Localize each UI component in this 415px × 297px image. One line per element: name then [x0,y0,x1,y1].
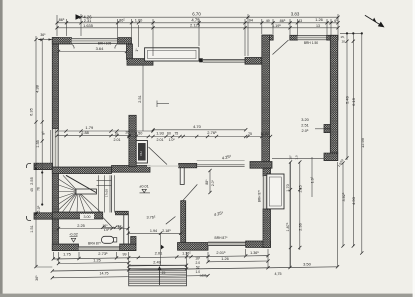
svg-text:1.635: 1.635 [83,23,93,28]
svg-text:2.25: 2.25 [77,223,85,228]
svg-text:1.70: 1.70 [286,184,290,191]
svg-text:99: 99 [123,252,127,256]
svg-text:1.0⁵: 1.0⁵ [169,138,176,142]
svg-text:14,75: 14,75 [100,272,109,276]
svg-text:1.94: 1.94 [150,229,157,233]
svg-text:75: 75 [174,132,178,136]
svg-text:43: 43 [298,19,302,23]
svg-text:75: 75 [248,132,252,136]
svg-text:2.73⁵: 2.73⁵ [98,251,108,256]
svg-text:4.50: 4.50 [351,196,356,205]
svg-text:2.01: 2.01 [157,138,164,142]
svg-text:88⁵: 88⁵ [205,179,209,185]
svg-text:16⁵: 16⁵ [102,224,108,228]
svg-text:2.76⁵: 2.76⁵ [207,130,217,135]
svg-text:3.76⁵: 3.76⁵ [147,216,156,220]
svg-text:2.0⁵: 2.0⁵ [37,205,41,212]
svg-text:1.87⁵: 1.87⁵ [286,222,290,231]
svg-text:2.51: 2.51 [138,95,142,102]
svg-text:2.51: 2.51 [301,123,309,128]
svg-text:6.70: 6.70 [192,12,201,17]
svg-text:2.01: 2.01 [155,251,164,256]
svg-text:36⁵: 36⁵ [35,275,39,281]
svg-text:1.00: 1.00 [135,18,143,23]
svg-text:16,50: 16,50 [261,132,269,136]
svg-text:1.26: 1.26 [315,17,323,22]
svg-text:1.25: 1.25 [299,185,303,192]
svg-text:-0.02: -0.02 [69,233,78,237]
svg-text:1,0: 1,0 [295,155,299,160]
svg-text:4,75: 4,75 [275,272,282,276]
svg-text:2.36: 2.36 [299,223,303,230]
svg-text:2.49: 2.49 [153,259,161,264]
svg-text:BRH 87⁵: BRH 87⁵ [257,189,261,202]
svg-text:BRH 87⁵: BRH 87⁵ [88,242,102,246]
svg-text:6.13: 6.13 [351,97,356,106]
svg-text:1.35: 1.35 [36,140,40,147]
svg-text:1.25: 1.25 [93,259,100,263]
svg-text:45: 45 [30,188,34,192]
svg-text:1.0: 1.0 [196,270,201,274]
svg-text:4.70: 4.70 [193,124,202,129]
svg-text:±0.01: ±0.01 [139,184,148,188]
svg-text:2.01: 2.01 [114,138,121,142]
svg-text:2.0⁵: 2.0⁵ [301,128,308,133]
svg-text:20: 20 [342,39,346,43]
svg-text:3.83: 3.83 [291,12,300,17]
svg-text:17x18: 17x18 [105,189,109,198]
svg-text:3.92⁵: 3.92⁵ [342,192,346,201]
svg-text:76: 76 [114,132,118,136]
svg-text:2.01⁵: 2.01⁵ [216,250,226,255]
svg-text:25: 25 [162,271,166,275]
svg-text:1.75: 1.75 [63,252,72,257]
svg-text:86⁵: 86⁵ [280,19,286,23]
svg-text:1.51: 1.51 [30,225,34,232]
svg-text:1.93: 1.93 [156,130,164,135]
svg-text:1.26: 1.26 [221,257,228,261]
svg-text:26: 26 [125,131,129,135]
svg-text:3.50: 3.50 [303,262,312,267]
svg-text:BRH 1.50: BRH 1.50 [304,41,318,45]
svg-text:DU: DU [139,151,143,155]
svg-text:2.55: 2.55 [29,176,34,185]
svg-text:2.0⁵: 2.0⁵ [211,179,215,186]
svg-text:16⁵: 16⁵ [195,256,201,260]
svg-text:49: 49 [266,19,270,23]
svg-text:BRH 87⁵: BRH 87⁵ [215,236,229,240]
svg-text:1.3⁵: 1.3⁵ [311,176,315,183]
svg-text:52: 52 [196,266,200,270]
svg-text:52: 52 [118,224,122,228]
svg-text:3.00: 3.00 [84,215,91,219]
svg-text:86⁵: 86⁵ [59,18,65,22]
svg-text:76: 76 [36,187,40,191]
svg-text:1.36⁵: 1.36⁵ [250,251,259,255]
svg-text:2.0: 2.0 [196,261,201,265]
svg-text:36⁵: 36⁵ [40,33,46,37]
svg-text:94: 94 [249,19,253,23]
svg-text:2.125: 2.125 [190,23,201,28]
svg-text:2.88: 2.88 [81,130,89,135]
svg-text:13: 13 [316,24,320,28]
svg-text:2.18⁵: 2.18⁵ [162,229,171,233]
svg-text:4.38: 4.38 [35,84,40,93]
svg-text:12.99: 12.99 [360,137,365,148]
svg-text:16⁵: 16⁵ [289,154,293,159]
svg-text:60: 60 [167,132,171,136]
svg-text:5.49: 5.49 [345,95,350,104]
svg-text:6⁵: 6⁵ [334,19,338,23]
svg-text:3.64: 3.64 [96,46,105,51]
svg-text:6.35: 6.35 [29,107,34,116]
svg-text:8⁵: 8⁵ [42,131,46,135]
svg-text:3.20: 3.20 [301,117,309,122]
svg-text:1.19⁵: 1.19⁵ [272,24,281,28]
svg-text:86⁵: 86⁵ [119,18,125,22]
svg-text:BRH 105: BRH 105 [98,42,112,46]
svg-text:3.50: 3.50 [135,131,142,135]
